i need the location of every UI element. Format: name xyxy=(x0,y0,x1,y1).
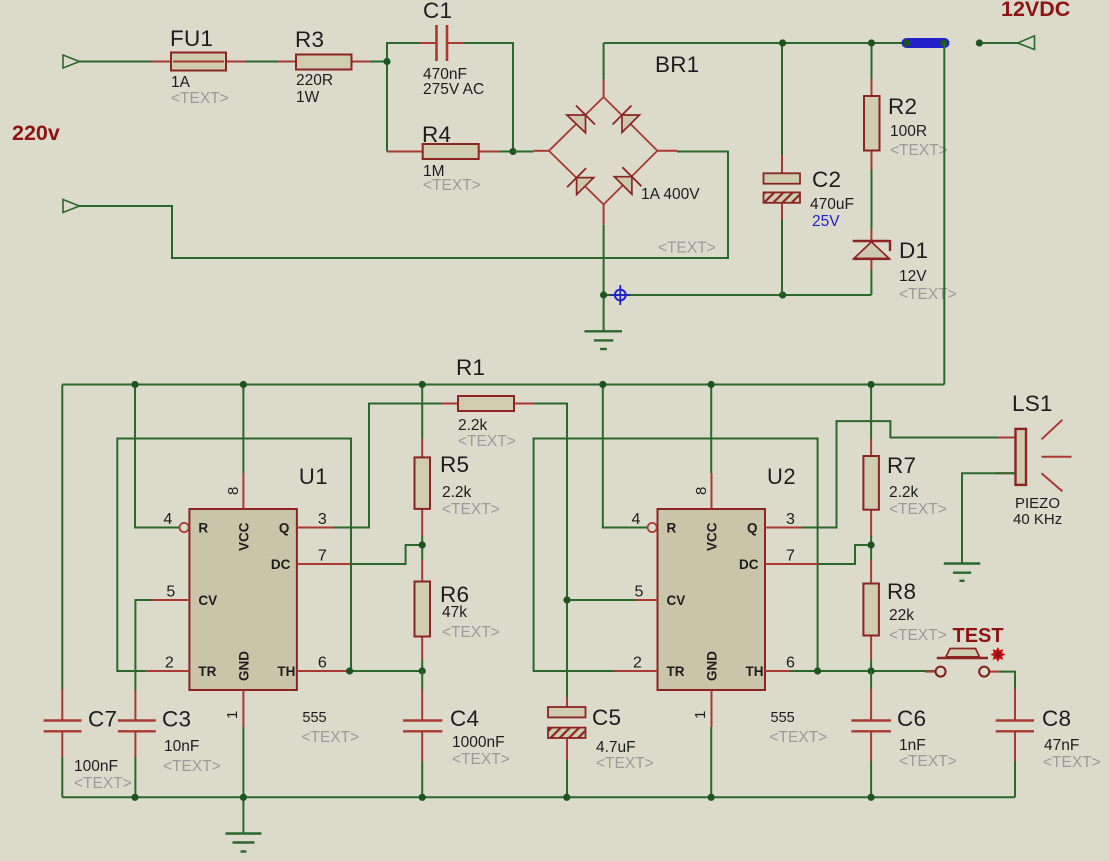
zener diode D1 12V xyxy=(853,229,957,303)
wire R4 to node xyxy=(500,151,513,153)
svg-text:40 KHz: 40 KHz xyxy=(1013,511,1062,528)
wire rail to U2 reset pin 4 xyxy=(603,385,648,528)
origin marker (blue crosshair) xyxy=(611,285,631,305)
svg-text:<TEXT>: <TEXT> xyxy=(899,753,957,770)
svg-text:<TEXT>: <TEXT> xyxy=(163,758,221,775)
svg-text:TEST: TEST xyxy=(953,625,1004,647)
capacitor C7 100nF xyxy=(44,689,132,792)
svg-text:<TEXT>: <TEXT> xyxy=(171,90,229,107)
svg-text:R: R xyxy=(198,521,208,536)
wire D1 to ground row xyxy=(870,270,872,295)
wire U1 TR to TH link xyxy=(117,439,351,672)
node bridge ground xyxy=(600,291,607,298)
svg-text:1nF: 1nF xyxy=(899,737,926,754)
node U1 ground xyxy=(240,794,247,801)
svg-text:R7: R7 xyxy=(887,453,916,478)
wire rail to U2 VCC pin 8 xyxy=(710,385,712,474)
resistor R3 220R xyxy=(278,27,370,106)
svg-text:4: 4 xyxy=(632,511,641,528)
wire U2 TH row to button xyxy=(790,670,935,672)
svg-text:DC: DC xyxy=(271,557,291,572)
node blue segment right xyxy=(940,39,947,46)
svg-text:7: 7 xyxy=(786,548,795,565)
wire C6 to ground rail xyxy=(870,761,872,797)
node rail / U2 reset branch xyxy=(599,381,606,388)
svg-text:2.2k: 2.2k xyxy=(458,417,488,434)
node rail / R5 branch xyxy=(419,381,426,388)
svg-text:GND: GND xyxy=(236,651,251,681)
555 timer U1 xyxy=(146,464,359,746)
svg-text:220v: 220v xyxy=(12,121,60,145)
wire rail down to C7 xyxy=(61,385,63,690)
svg-text:2.2k: 2.2k xyxy=(442,484,472,501)
svg-text:C8: C8 xyxy=(1042,706,1071,731)
svg-text:<TEXT>: <TEXT> xyxy=(658,240,716,257)
resistor R8 22k xyxy=(863,560,946,660)
piezo speaker LS1 xyxy=(995,391,1072,528)
svg-text:BR1: BR1 xyxy=(655,52,699,77)
svg-text:C5: C5 xyxy=(592,705,621,730)
svg-text:<TEXT>: <TEXT> xyxy=(1043,754,1101,771)
svg-text:VCC: VCC xyxy=(705,522,720,551)
wire R5 to junction xyxy=(421,536,423,560)
svg-text:<TEXT>: <TEXT> xyxy=(889,501,947,518)
svg-text:PIEZO: PIEZO xyxy=(1015,495,1060,512)
wire TH node to C4 xyxy=(421,671,423,689)
wire rail to U1 VCC pin 8 xyxy=(242,385,244,474)
resistor R2 100R xyxy=(864,79,948,170)
svg-text:TR: TR xyxy=(667,664,685,679)
resistor R5 2.2k xyxy=(415,439,500,536)
svg-text:<TEXT>: <TEXT> xyxy=(770,729,828,746)
resistor R6 47k xyxy=(415,560,500,660)
capacitor C5 4.7uF electrolytic xyxy=(548,697,654,772)
wire U2 Q output to LS1 xyxy=(791,421,1016,527)
VCC rail oscillator section xyxy=(62,384,944,386)
svg-text:<TEXT>: <TEXT> xyxy=(889,627,947,644)
node R7 / R8 / U2 DC xyxy=(868,541,875,548)
svg-text:GND: GND xyxy=(705,651,720,681)
svg-text:2.2k: 2.2k xyxy=(889,484,919,501)
node R5 / R6 / U1 DC xyxy=(419,541,426,548)
svg-text:<TEXT>: <TEXT> xyxy=(452,751,510,768)
svg-text:8: 8 xyxy=(693,487,710,495)
svg-text:100nF: 100nF xyxy=(74,758,118,775)
wire U2 DC to R7/R8 junction xyxy=(799,545,871,564)
wire neutral input to bridge right xyxy=(80,152,729,259)
svg-text:5: 5 xyxy=(635,584,644,601)
svg-text:22k: 22k xyxy=(889,607,914,624)
svg-text:470uF: 470uF xyxy=(810,196,854,213)
wire R7 to junction xyxy=(870,536,872,560)
node U1 TH / R6 / C4 xyxy=(419,667,426,674)
wire R3 to node xyxy=(370,61,387,63)
svg-text:R8: R8 xyxy=(887,579,916,604)
svg-text:Q: Q xyxy=(279,521,290,536)
svg-text:<TEXT>: <TEXT> xyxy=(301,729,359,746)
capacitor C3 10nF xyxy=(118,690,221,775)
svg-text:C1: C1 xyxy=(423,0,452,23)
svg-text:555: 555 xyxy=(771,710,795,726)
svg-text:TH: TH xyxy=(277,664,295,679)
svg-text:<TEXT>: <TEXT> xyxy=(442,501,500,518)
ground (main) xyxy=(226,797,262,851)
svg-text:D1: D1 xyxy=(899,238,928,263)
wire C1 to R4 output node xyxy=(464,43,513,152)
svg-text:Q: Q xyxy=(747,521,758,536)
node R3 / C1 / R4 xyxy=(383,58,390,65)
svg-text:2: 2 xyxy=(633,655,642,672)
wire live input to FU1 xyxy=(80,61,153,63)
svg-text:<TEXT>: <TEXT> xyxy=(458,433,516,450)
wire U2 CV to C5 junction xyxy=(567,599,636,601)
push button TEST xyxy=(925,625,1004,677)
wire button to C8 xyxy=(1000,672,1015,689)
svg-text:25V: 25V xyxy=(812,213,840,230)
wire rail to C2 xyxy=(781,43,783,155)
wire R6 to TH row xyxy=(421,660,423,671)
wire C8 to ground rail xyxy=(1014,761,1016,797)
capacitor C6 1nF xyxy=(851,689,956,771)
svg-text:R4: R4 xyxy=(422,122,451,147)
wire U2 TR to TH link xyxy=(534,439,818,672)
ground (bridge) xyxy=(585,295,623,349)
node C1 / R4 output xyxy=(509,148,516,155)
fuse FU1 1A xyxy=(152,26,246,107)
wire rail to U1 reset pin 4 xyxy=(135,385,180,528)
svg-text:U1: U1 xyxy=(299,464,328,489)
wire C7 to ground rail xyxy=(61,757,63,797)
svg-text:VCC: VCC xyxy=(236,522,251,551)
svg-text:TR: TR xyxy=(198,664,216,679)
svg-text:12VDC: 12VDC xyxy=(1001,0,1070,21)
svg-text:4.7uF: 4.7uF xyxy=(596,739,636,756)
node C6 ground xyxy=(868,794,875,801)
svg-text:R: R xyxy=(667,521,677,536)
svg-text:<TEXT>: <TEXT> xyxy=(899,286,957,303)
svg-text:1A: 1A xyxy=(171,74,191,91)
node U2 TH / R8 / C6 xyxy=(868,667,875,674)
capacitor C1 470nF xyxy=(420,0,484,98)
wire to 12VDC terminal xyxy=(983,42,1018,44)
capacitor C4 1000nF xyxy=(403,689,510,768)
node U2 ground xyxy=(708,794,715,801)
node C2 top xyxy=(779,39,786,46)
svg-text:C4: C4 xyxy=(450,706,479,731)
ground rail oscillator section xyxy=(62,796,1015,798)
highlighted wire segment (selected) xyxy=(907,38,945,48)
svg-text:1000nF: 1000nF xyxy=(452,734,505,751)
svg-text:R2: R2 xyxy=(888,94,917,119)
node C5 ground xyxy=(563,794,570,801)
node 12VDC output stub xyxy=(976,39,983,46)
svg-text:4: 4 xyxy=(163,511,172,528)
node rail / R7 branch xyxy=(868,381,875,388)
svg-text:7: 7 xyxy=(318,548,327,565)
svg-text:<TEXT>: <TEXT> xyxy=(442,624,500,641)
svg-text:C7: C7 xyxy=(88,707,117,732)
svg-text:<TEXT>: <TEXT> xyxy=(74,775,132,792)
node rail / U1 VCC branch xyxy=(240,381,247,388)
svg-text:C2: C2 xyxy=(812,167,841,192)
svg-text:100R: 100R xyxy=(890,123,927,140)
svg-text:R5: R5 xyxy=(440,452,469,477)
555 timer U2 xyxy=(614,464,827,746)
wire R8 to TH row xyxy=(870,660,872,671)
svg-text:12V: 12V xyxy=(899,268,927,285)
wire R1 to U2 CV and C5 xyxy=(534,404,567,698)
svg-text:TH: TH xyxy=(746,664,764,679)
capacitor C8 47nF xyxy=(996,689,1101,772)
capacitor C2 470uF electrolytic xyxy=(764,155,854,230)
svg-text:220R: 220R xyxy=(296,72,333,89)
node rail / U2 VCC branch xyxy=(708,381,715,388)
node U1 TH / feedback xyxy=(346,667,353,674)
svg-text:R1: R1 xyxy=(456,355,485,380)
wire node to bridge left xyxy=(513,151,534,153)
wire rail to R2 xyxy=(871,43,873,79)
svg-text:555: 555 xyxy=(302,710,326,726)
wire R2 to D1 xyxy=(871,170,873,229)
svg-text:275V AC: 275V AC xyxy=(423,81,484,98)
node blue segment left xyxy=(903,39,910,46)
wire 12V rail down to oscillator section xyxy=(943,43,945,385)
wire TH node to C6 xyxy=(870,671,872,689)
resistor R7 2.2k xyxy=(863,439,946,536)
svg-text:FU1: FU1 xyxy=(170,26,213,51)
svg-text:6: 6 xyxy=(786,655,795,672)
wire U1 TH row xyxy=(333,670,422,672)
wire LS1 to ground xyxy=(962,473,1016,563)
top 12V rail xyxy=(604,42,908,44)
resistor R4 1M xyxy=(387,122,500,194)
wire U1 pin 1 to ground rail xyxy=(242,727,244,797)
wire rail to R7 xyxy=(870,385,872,440)
svg-text:3: 3 xyxy=(318,511,327,528)
wire node up to C1 branch xyxy=(387,43,420,62)
svg-text:1: 1 xyxy=(224,711,241,719)
wire bridge bottom to ground row xyxy=(603,225,605,295)
wire rail to R5 xyxy=(421,385,423,440)
terminal neutral input xyxy=(63,200,80,213)
svg-text:47k: 47k xyxy=(442,604,467,621)
wire FU1 to R3 xyxy=(246,61,278,63)
node C2 ground xyxy=(779,291,786,298)
svg-text:3: 3 xyxy=(786,511,795,528)
svg-text:C6: C6 xyxy=(897,706,926,731)
svg-text:10nF: 10nF xyxy=(164,738,199,755)
svg-text:1A 400V: 1A 400V xyxy=(641,186,700,203)
wire U2 pin 1 to ground rail xyxy=(710,727,712,797)
wire C3 to ground rail xyxy=(134,757,136,797)
terminal 12VDC output xyxy=(1018,36,1035,50)
push button actuator star xyxy=(990,647,1005,662)
svg-text:1W: 1W xyxy=(296,89,320,106)
svg-text:5: 5 xyxy=(166,584,175,601)
svg-text:<TEXT>: <TEXT> xyxy=(596,755,654,772)
wire node down to R4 branch xyxy=(386,65,388,152)
220v net label xyxy=(12,121,60,145)
wire U1 Q output to R1 xyxy=(333,404,441,528)
wire C4 to ground rail xyxy=(421,761,423,797)
node R1 / U2 CV / C5 xyxy=(563,596,570,603)
wire C5 to ground rail xyxy=(566,760,568,797)
svg-text:<TEXT>: <TEXT> xyxy=(423,177,481,194)
ground return row xyxy=(604,294,872,296)
svg-text:1: 1 xyxy=(692,711,709,719)
svg-text:LS1: LS1 xyxy=(1012,391,1053,416)
12VDC net label xyxy=(1001,0,1070,21)
node R2 top xyxy=(868,39,875,46)
svg-text:U2: U2 xyxy=(767,464,796,489)
svg-text:R3: R3 xyxy=(295,27,324,52)
terminal live input xyxy=(63,55,80,68)
wire U1 DC to R5/R6 junction xyxy=(351,545,422,564)
svg-text:DC: DC xyxy=(739,557,759,572)
svg-text:2: 2 xyxy=(165,655,174,672)
svg-text:6: 6 xyxy=(318,655,327,672)
node rail / U1 reset branch xyxy=(131,381,138,388)
wire U1 CV to C3 xyxy=(135,600,151,690)
svg-text:<TEXT>: <TEXT> xyxy=(890,142,948,159)
node U2 TH / feedback xyxy=(814,667,821,674)
wire C2 to ground row xyxy=(781,220,783,295)
svg-text:CV: CV xyxy=(198,593,217,608)
svg-text:8: 8 xyxy=(225,487,242,495)
bridge rectifier BR1 1A 400V xyxy=(534,52,716,257)
svg-text:C3: C3 xyxy=(162,707,191,732)
node C3 ground xyxy=(131,794,138,801)
node C4 ground xyxy=(419,794,426,801)
svg-text:CV: CV xyxy=(667,593,686,608)
resistor R1 2.2k xyxy=(441,355,534,450)
wire bridge top to 12V rail xyxy=(603,43,605,80)
ground (speaker) xyxy=(944,564,981,581)
svg-text:47nF: 47nF xyxy=(1044,737,1079,754)
